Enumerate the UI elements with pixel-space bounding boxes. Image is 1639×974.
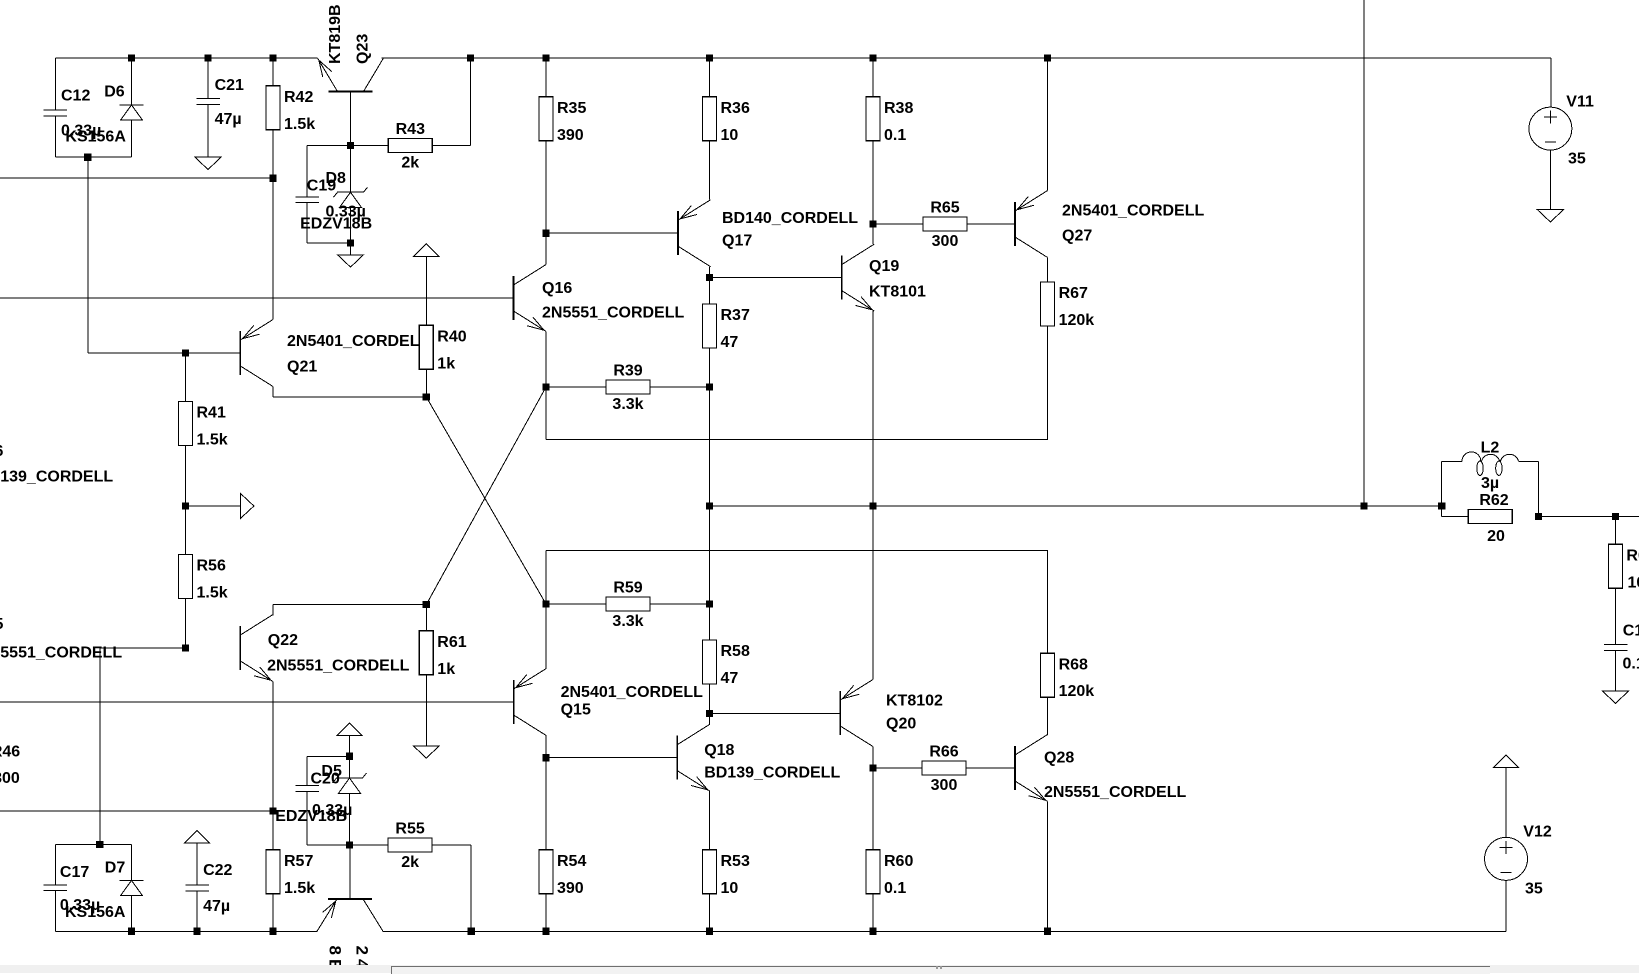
- wire Q21 collector down: [272, 387, 274, 398]
- wire R66 to Q28 base: [966, 767, 1015, 769]
- transistor Q27 collector lead: [1015, 191, 1048, 212]
- transistor Q16 base bar: [513, 276, 515, 320]
- wire flag to D5 node: [349, 735, 351, 756]
- svg-text:Q20: Q20: [886, 716, 916, 733]
- wire R43 to riser: [432, 145, 470, 147]
- wire +35V top rail left segment: [55, 57, 317, 59]
- wire node to R41: [185, 353, 187, 402]
- transistor Q22 emitter arrow: [254, 667, 271, 680]
- node R63 tap: [1612, 513, 1619, 520]
- transistor Q28 emitter arrow: [1029, 787, 1046, 800]
- resistor R63 body: [1609, 544, 1623, 588]
- node C17/D7 junction: [96, 841, 103, 848]
- node R41/R56 divider: [182, 502, 189, 509]
- wire line y811: [0, 810, 273, 812]
- wire C12-D6 bottom: [55, 156, 131, 158]
- resistor R55 body: [388, 838, 432, 852]
- wire rail to R38: [872, 58, 874, 97]
- node bottom rail x=131.5: [128, 928, 135, 935]
- svg-text:R53: R53: [721, 853, 750, 870]
- transistor Q22 collector lead: [240, 615, 273, 636]
- svg-text:47µ: 47µ: [215, 111, 242, 128]
- svg-text:1k: 1k: [437, 661, 455, 678]
- node output rail / R37 column: [706, 502, 713, 509]
- svg-text:R60: R60: [884, 853, 913, 870]
- svg-text:C12: C12: [61, 88, 90, 105]
- transistor Q20 emitter lead: [840, 726, 873, 747]
- wire Q18 emitter down: [709, 791, 711, 850]
- node R39 left / diagonal: [542, 383, 549, 390]
- resistor R56 body: [179, 555, 193, 599]
- svg-text:KT819B: KT819B: [327, 4, 344, 64]
- wire left line y178: [0, 177, 273, 179]
- svg-text:R41: R41: [197, 405, 226, 422]
- node D5 top: [346, 753, 353, 760]
- wire R68 to Q28 collector: [1047, 697, 1049, 735]
- svg-text:R55: R55: [395, 821, 424, 838]
- resistor R60 body: [866, 850, 880, 894]
- wire R62 left lead: [1442, 515, 1469, 517]
- svg-text:R58: R58: [721, 643, 750, 660]
- svg-text:Q23: Q23: [355, 34, 372, 64]
- svg-text:KS156A: KS156A: [65, 129, 126, 146]
- svg-text:1.5k: 1.5k: [284, 880, 315, 897]
- capacitor C17: [54, 845, 56, 885]
- resistor R41 body: [179, 402, 193, 446]
- wire Q18 collector up: [709, 713, 711, 724]
- transistor Q19 collector lead: [842, 244, 875, 265]
- power flag above C22: [185, 831, 210, 844]
- transistor Q22 base bar: [239, 626, 241, 670]
- wire Q22 base corner down: [99, 648, 101, 845]
- wire R35 to Q17-base node: [545, 141, 547, 233]
- wire top rail to V11: [1550, 58, 1552, 107]
- wire Q15 base line: [0, 701, 514, 703]
- node bottom rail x=273: [269, 928, 276, 935]
- resistor R66 body: [922, 761, 966, 775]
- node Q23 base / R43 / D8: [347, 142, 354, 149]
- wire Q28 emitter down: [1047, 802, 1049, 932]
- svg-text:10: 10: [721, 880, 739, 897]
- svg-text:R35: R35: [557, 100, 586, 117]
- inner pane strip: [391, 966, 1490, 974]
- wire output rail: [710, 505, 1442, 507]
- svg-text:3.3k: 3.3k: [612, 613, 643, 630]
- resistor R67 body: [1041, 282, 1055, 326]
- wire node to R55: [350, 844, 389, 846]
- transistor Q21 emitter lead: [240, 366, 273, 387]
- wire y439 Q16 emitter to R67: [546, 439, 1048, 441]
- wire node to R66: [873, 767, 922, 769]
- transistor Q16 emitter arrow: [527, 317, 544, 330]
- transistor Q20 emitter arrow: [842, 686, 859, 699]
- svg-text:R66: R66: [929, 744, 958, 761]
- wire R40 to node: [425, 369, 427, 397]
- wire input line y298 to Q16 base: [0, 297, 514, 299]
- node bottom rail x=471.2: [468, 928, 475, 935]
- node bottom rail x=546: [542, 928, 549, 935]
- resistor R38 body: [866, 97, 880, 141]
- wire to Q21 base: [88, 352, 241, 354]
- wire riser to top rail: [470, 58, 472, 146]
- transistor Q24 emitter lead: [317, 899, 337, 931]
- svg-text:R68: R68: [1059, 656, 1088, 673]
- transistor Q28 emitter lead: [1015, 781, 1048, 802]
- svg-text:2k: 2k: [401, 154, 419, 171]
- wire R39 node to output rail: [709, 387, 711, 506]
- svg-text:C13: C13: [1623, 623, 1639, 640]
- wire -35V bottom rail left segment: [55, 930, 317, 932]
- wire R63 to C13: [1615, 588, 1617, 644]
- wire Q20 emitter up to output: [872, 506, 874, 679]
- svg-text:C17: C17: [60, 864, 89, 881]
- resistor R42 body: [266, 86, 280, 130]
- wire node to R59: [546, 603, 606, 605]
- svg-text:R38: R38: [884, 100, 913, 117]
- svg-text:V11: V11: [1566, 93, 1594, 110]
- transistor Q17 collector lead: [678, 200, 711, 221]
- wire R37 to node: [709, 348, 711, 387]
- wire R42 node down to Q21 emitter: [272, 178, 274, 319]
- wire Q19 emitter down to output: [872, 311, 874, 506]
- wire to Q17 base: [546, 232, 678, 234]
- resistor R53 body: [703, 850, 717, 894]
- node R37 / R39: [706, 383, 713, 390]
- wire feedback line going up: [1363, 0, 1365, 506]
- wire V12 to bottom rail: [1505, 880, 1507, 931]
- wire R53 to rail: [709, 894, 711, 932]
- wire Q19 collector up: [872, 224, 874, 244]
- svg-text:Q16: Q16: [542, 280, 572, 297]
- svg-text:2N5551_CORDELL: 2N5551_CORDELL: [267, 657, 410, 674]
- wire Q27 collector to R67: [1047, 258, 1049, 283]
- wire node to R61: [425, 605, 427, 631]
- power flag above R40: [414, 244, 439, 256]
- resistor R59 body: [606, 597, 650, 611]
- svg-text:2N5551_CORDELL: 2N5551_CORDELL: [1044, 784, 1187, 801]
- wire C19 top: [307, 145, 351, 147]
- node bottom rail x=197: [193, 928, 200, 935]
- svg-text:2k: 2k: [401, 854, 419, 871]
- wire C17-D7 top: [55, 844, 131, 846]
- wire flag to R40: [425, 256, 427, 325]
- svg-text:300: 300: [0, 770, 20, 787]
- svg-text:Q17: Q17: [722, 232, 752, 249]
- wire x546 down segment: [545, 550, 547, 668]
- wire R54 to rail: [545, 894, 547, 932]
- node L2/R62 right: [1535, 513, 1542, 520]
- wire output node down: [709, 506, 711, 604]
- svg-text:BD140_CORDELL: BD140_CORDELL: [722, 210, 858, 227]
- wire C19-D8 bottom: [307, 242, 351, 244]
- wire +35V top rail right segment: [382, 57, 1551, 59]
- svg-text:47: 47: [721, 334, 739, 351]
- transistor Q15 emitter lead: [514, 715, 547, 736]
- svg-text:R46: R46: [0, 743, 20, 760]
- svg-text:R57: R57: [284, 853, 313, 870]
- resistor R36 body: [703, 97, 717, 141]
- node R59 left / diagonal: [542, 600, 549, 607]
- resistor R62 body: [1468, 509, 1512, 523]
- svg-text:R59: R59: [613, 580, 642, 597]
- transistor Q18 collector lead: [677, 724, 710, 745]
- wire rail to R42: [272, 58, 274, 86]
- wire rail to R35: [545, 58, 547, 97]
- wire y550 Q15 emitter to R68: [546, 549, 1048, 551]
- svg-text:120k: 120k: [1059, 683, 1095, 700]
- svg-text:Q28: Q28: [1044, 749, 1074, 766]
- node top rail x=546: [542, 54, 549, 61]
- wire Q22 base left: [100, 647, 186, 649]
- capacitor C19: [306, 146, 308, 197]
- gripper marks: [936, 966, 938, 969]
- transistor Q17 emitter arrow: [680, 206, 697, 219]
- node R61 / Q22 collector: [423, 601, 430, 608]
- transistor Q20 collector lead: [840, 680, 873, 701]
- node top rail x=873: [869, 54, 876, 61]
- svg-text:BD139_CORDELL: BD139_CORDELL: [0, 469, 113, 486]
- node Q15 collector / Q18 base: [542, 754, 549, 761]
- wire Q16 collector up: [545, 233, 547, 264]
- wire Q22 collector up: [272, 605, 274, 616]
- svg-text:390: 390: [557, 127, 584, 144]
- resistor R61 body: [419, 631, 433, 675]
- node C12/D6 junction: [84, 154, 91, 161]
- resistor R43 body: [388, 139, 432, 153]
- wire R67 down to y439: [1047, 326, 1049, 440]
- transistor Q19 base bar: [841, 256, 843, 300]
- svg-text:Q15: Q15: [561, 702, 591, 719]
- svg-text:EDZV18B: EDZV18B: [275, 808, 347, 825]
- node top rail x=709.5: [706, 54, 713, 61]
- svg-text:47µ: 47µ: [203, 898, 230, 915]
- wire flag to V12: [1505, 767, 1507, 837]
- svg-text:R61: R61: [437, 634, 466, 651]
- svg-text:R63: R63: [1626, 548, 1639, 565]
- wire Q16 emitter down: [545, 332, 547, 440]
- wire R42 to node: [272, 130, 274, 178]
- svg-text:R40: R40: [437, 329, 466, 346]
- svg-text:10: 10: [1628, 574, 1639, 591]
- transistor Q23 emitter lead: [318, 58, 338, 92]
- wire node to R56: [185, 506, 187, 555]
- transistor Q24 emitter arrow: [323, 901, 336, 918]
- wire Q22 collector to R61 node: [273, 604, 426, 606]
- wire R36 to Q17 emitter: [709, 141, 711, 200]
- wire R38 to node: [872, 141, 874, 224]
- transistor Q28 collector lead: [1015, 735, 1048, 756]
- svg-text:2N5401_CORDELL: 2N5401_CORDELL: [561, 684, 704, 701]
- transistor Q23 base bar: [329, 91, 373, 93]
- svg-text:C21: C21: [215, 77, 244, 94]
- svg-text:V12: V12: [1523, 824, 1552, 841]
- transistor Q17 emitter lead: [678, 246, 711, 267]
- wire to Q20 base: [710, 712, 841, 714]
- svg-text:1k: 1k: [437, 355, 455, 372]
- wire L2 right down: [1538, 461, 1540, 516]
- node R57 / line y811 / Q22 emitter: [269, 807, 276, 814]
- transistor Q24 base lead: [349, 845, 351, 899]
- svg-text:35: 35: [1568, 150, 1586, 167]
- transistor Q23 emitter arrow: [319, 60, 332, 77]
- transistor Q23 collector lead: [364, 58, 384, 92]
- transistor Q17 base bar: [677, 211, 679, 255]
- svg-text:R39: R39: [613, 363, 642, 380]
- resistor R54 body: [539, 850, 553, 894]
- svg-text:0.1µ: 0.1µ: [1623, 656, 1639, 673]
- node R43 riser on +35V rail: [467, 54, 474, 61]
- wire Q22 emitter down: [272, 682, 274, 812]
- wire node to R63: [1615, 516, 1617, 544]
- svg-text:1.5k: 1.5k: [284, 116, 315, 133]
- transistor Q18 emitter lead: [677, 771, 710, 792]
- node D5 bottom / R55 / Q24 base: [346, 841, 353, 848]
- inductor L2: [1442, 460, 1462, 462]
- wire R68 riser: [1047, 550, 1049, 653]
- resistor R37 body: [703, 304, 717, 348]
- node R58 / Q18 collector / Q20 base: [706, 710, 713, 717]
- svg-text:2N5551_CORDELL: 2N5551_CORDELL: [0, 645, 122, 662]
- wire node down to R62: [1441, 506, 1443, 516]
- svg-text:KT8101: KT8101: [869, 284, 926, 301]
- transistor Q15 emitter arrow: [516, 675, 533, 688]
- svg-text:300: 300: [932, 233, 959, 250]
- wire node up to L2: [1441, 461, 1443, 506]
- wire to port arrow: [186, 505, 241, 507]
- zener diode D8: [350, 146, 352, 193]
- node D8 bottom: [347, 239, 354, 246]
- wire node to R65: [873, 223, 923, 225]
- wire node to R43: [351, 145, 389, 147]
- svg-text:BD139_CORDELL: BD139_CORDELL: [704, 764, 840, 781]
- transistor Q22 emitter lead: [240, 661, 273, 682]
- transistor Q24 collector lead: [363, 899, 383, 931]
- ground below D8: [338, 255, 364, 267]
- svg-text:1.5k: 1.5k: [197, 432, 228, 449]
- transistor Q27 emitter arrow: [1017, 197, 1034, 210]
- svg-text:Q18: Q18: [704, 742, 734, 759]
- transistor Q27 base bar: [1014, 202, 1016, 246]
- wire Q21 collector to R40 node: [273, 396, 426, 398]
- wire R39 to node: [650, 386, 710, 388]
- svg-text:D5: D5: [321, 763, 342, 780]
- transistor Q21 collector lead: [240, 320, 273, 341]
- wire R61 to ground: [425, 675, 427, 746]
- wire C13 to ground: [1615, 650, 1617, 691]
- wire diagonal R40-node to R59-node: [426, 397, 546, 604]
- transistor Q28 base bar: [1014, 746, 1016, 790]
- svg-text:300: 300: [931, 777, 958, 794]
- svg-text:2N5401_CORDELL: 2N5401_CORDELL: [287, 333, 430, 350]
- wire Q27 emitter to rail: [1047, 58, 1049, 191]
- wire Q17 collector down: [709, 267, 711, 278]
- svg-text:KS156A: KS156A: [65, 904, 126, 921]
- transistor Q21 emitter arrow: [243, 326, 260, 339]
- wire node to R58: [709, 604, 711, 640]
- wire -35V bottom rail right segment: [382, 930, 1506, 932]
- node output rail / Q19-Q20 emitters: [869, 502, 876, 509]
- node top rail x=470.5: [467, 54, 474, 61]
- svg-text:R56: R56: [197, 558, 226, 575]
- wire R41 to port node: [185, 446, 187, 507]
- node R38 / R65 / Q19 collector: [869, 220, 876, 227]
- svg-text:R62: R62: [1479, 492, 1508, 509]
- svg-text:D7: D7: [105, 859, 126, 876]
- transistor Q20 base bar: [839, 691, 841, 735]
- node R40 / Q21 collector: [423, 393, 430, 400]
- svg-text:3µ: 3µ: [1481, 475, 1499, 492]
- voltage source V12 minus sign: [1501, 871, 1512, 873]
- node R42/left-line junction: [269, 175, 276, 182]
- svg-text:3.3k: 3.3k: [612, 396, 643, 413]
- voltage source V12 circle: [1485, 837, 1528, 880]
- transistor Q21 base bar: [239, 331, 241, 375]
- transistor Q18 emitter arrow: [691, 777, 708, 790]
- node R59 / R58: [706, 600, 713, 607]
- node top rail x=1047.6: [1044, 54, 1051, 61]
- svg-text:Q25: Q25: [0, 616, 4, 633]
- power flag above V12: [1494, 755, 1519, 768]
- node Q20 collector / R60 / R66: [869, 765, 876, 772]
- svg-text:KT8102: KT8102: [886, 692, 943, 709]
- svg-text:47: 47: [721, 670, 739, 687]
- wire R60 to rail: [872, 894, 874, 932]
- svg-text:Q26: Q26: [0, 443, 4, 460]
- resistor R40 body: [419, 325, 433, 369]
- transistor Q15 collector lead: [514, 669, 547, 690]
- svg-text:R43: R43: [396, 121, 425, 138]
- node bottom rail x=709.5: [706, 928, 713, 935]
- wire R57 to rail: [272, 894, 274, 932]
- wire node to R37: [709, 278, 711, 304]
- svg-text:R37: R37: [721, 307, 750, 324]
- transistor Q18 base bar: [676, 736, 678, 780]
- power flag above D5: [337, 723, 362, 736]
- svg-text:Q21: Q21: [287, 359, 317, 376]
- ground below C13: [1603, 691, 1629, 703]
- svg-text:EDZV18B: EDZV18B: [300, 215, 372, 232]
- svg-text:Q22: Q22: [268, 632, 298, 649]
- wire Q20 collector down: [872, 747, 874, 769]
- capacitor C13: [1604, 644, 1628, 646]
- svg-text:D6: D6: [104, 84, 125, 101]
- transistor Q19 emitter lead: [842, 291, 875, 312]
- node bottom rail x=1047.6: [1044, 928, 1051, 935]
- transistor Q16 emitter lead: [514, 311, 547, 332]
- svg-text:Q19: Q19: [869, 258, 899, 275]
- svg-text:35: 35: [1525, 881, 1543, 898]
- capacitor C22: [196, 843, 198, 885]
- capacitor C21: [207, 58, 209, 99]
- wire R58 to Q18 node: [709, 684, 711, 713]
- svg-text:0.1: 0.1: [884, 880, 906, 897]
- transistor Q23 base lead: [350, 92, 352, 146]
- node top rail x=273: [269, 54, 276, 61]
- wire node to R57: [272, 811, 274, 850]
- wire node to R39: [546, 386, 606, 388]
- svg-text:R36: R36: [721, 100, 750, 117]
- svg-text:Q27: Q27: [1062, 228, 1092, 245]
- voltage source V11 circle: [1529, 107, 1572, 150]
- capacitor C12: [54, 58, 56, 110]
- wire V11 to ground: [1549, 150, 1551, 210]
- resistor R65 body: [923, 217, 967, 231]
- ground below R61: [413, 746, 439, 758]
- wire node to R60: [872, 768, 874, 850]
- resistor R39 body: [606, 380, 650, 394]
- diode D7: [131, 845, 133, 881]
- wire rail to R36: [709, 58, 711, 97]
